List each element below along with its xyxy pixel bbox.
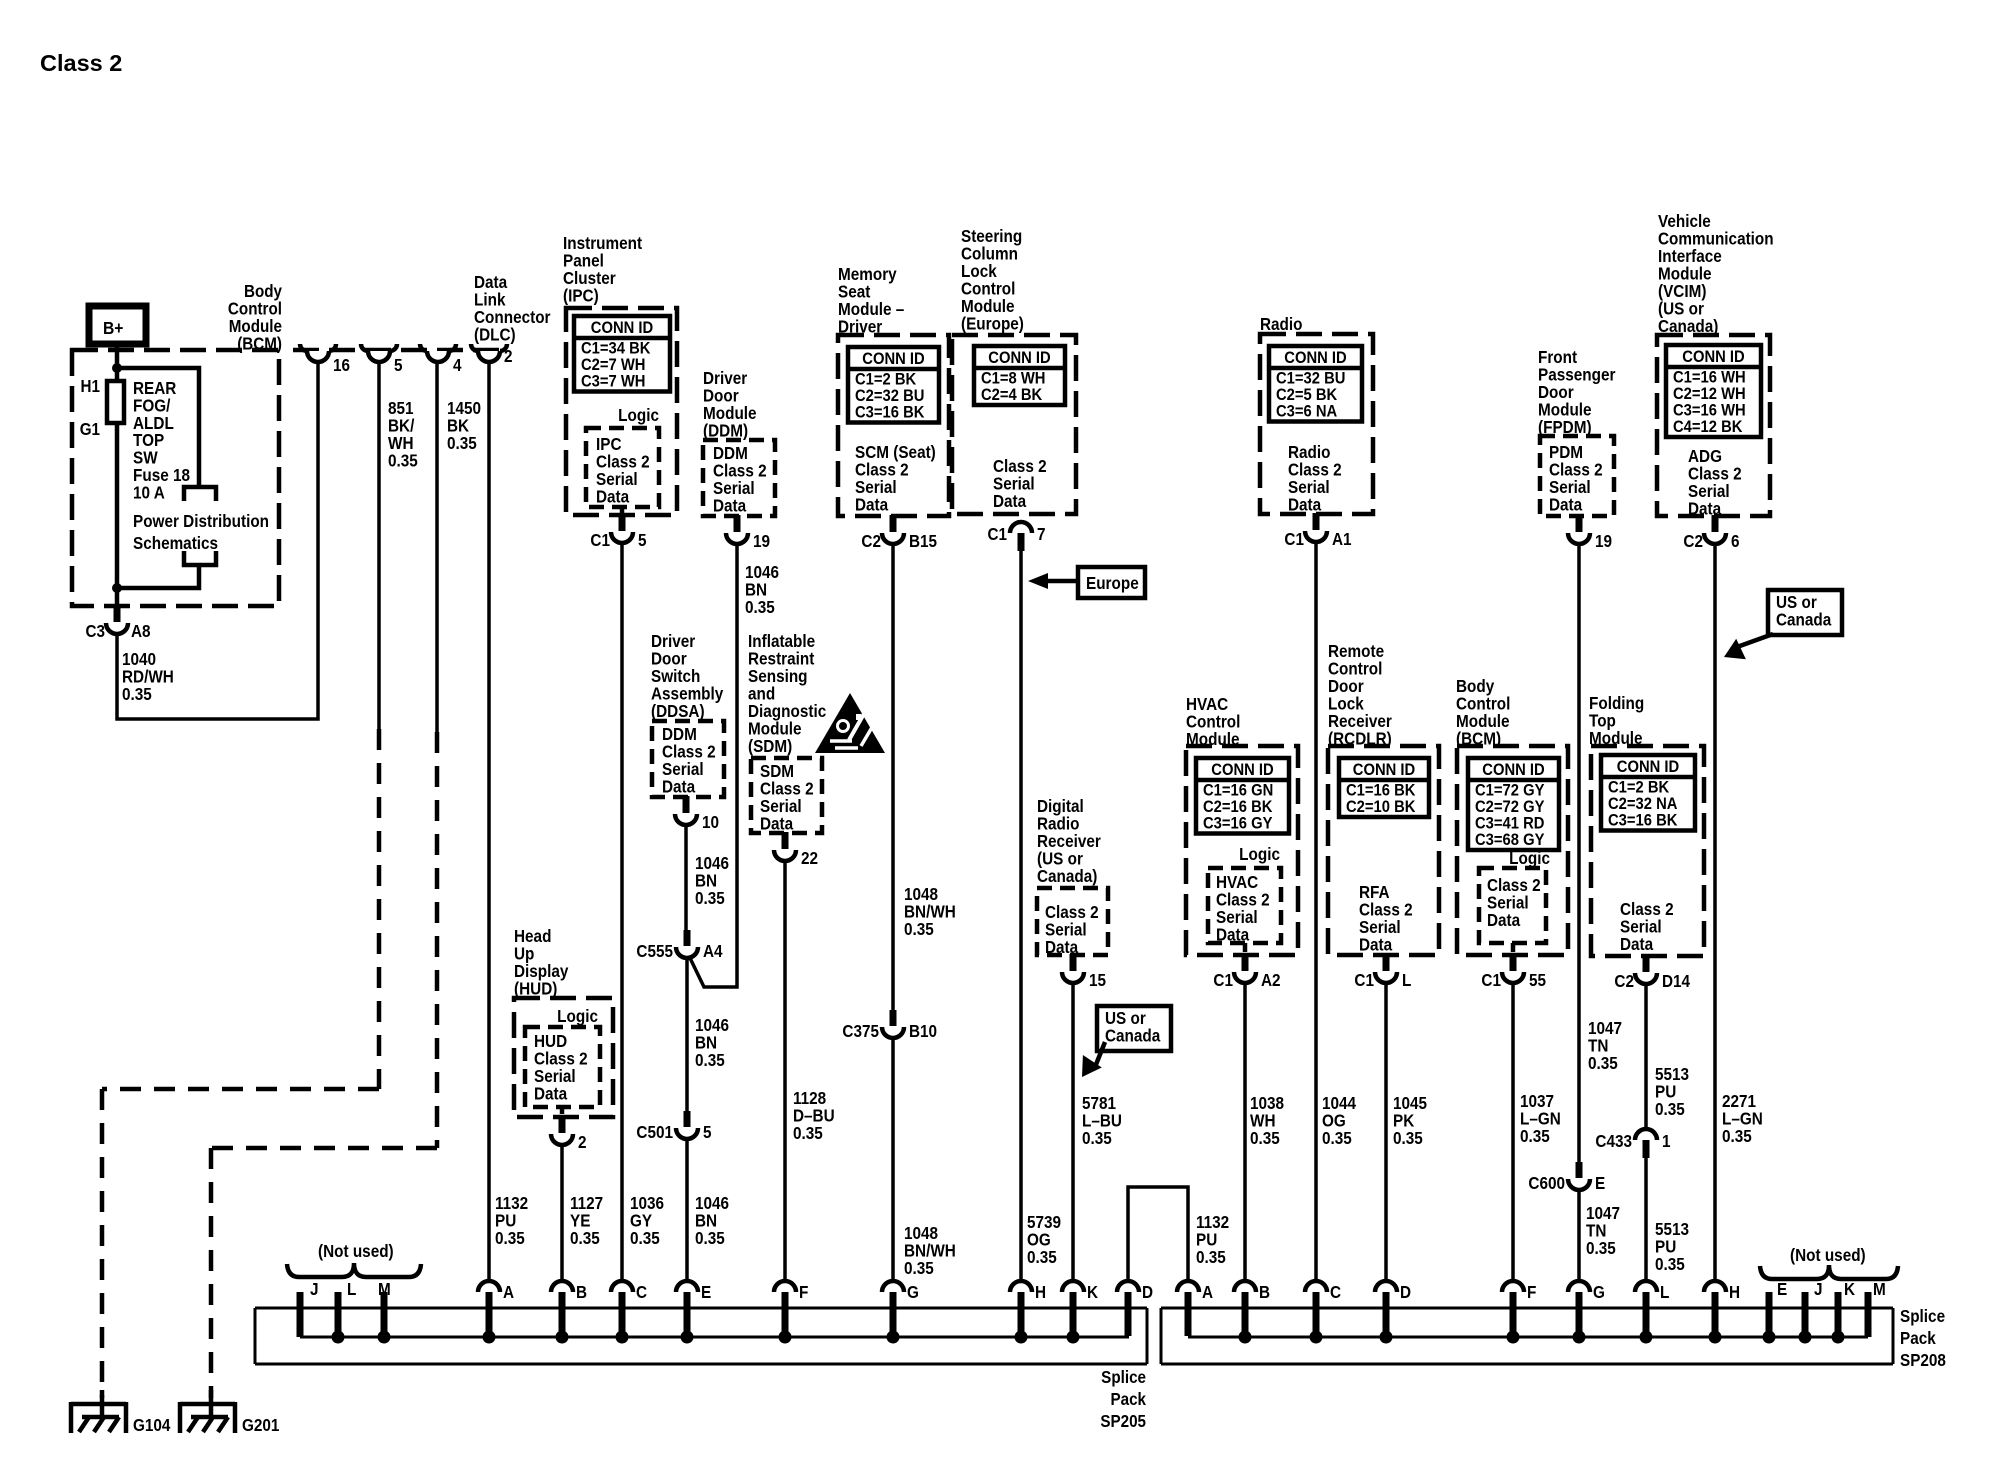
svg-text:A: A: [1202, 1283, 1213, 1302]
svg-text:C: C: [636, 1283, 647, 1302]
SP205 terminal C: [611, 1281, 633, 1292]
svg-text:1047: 1047: [1588, 1019, 1622, 1038]
svg-text:Serial: Serial: [1216, 908, 1258, 927]
svg-text:Module: Module: [703, 404, 757, 423]
svg-text:L–GN: L–GN: [1520, 1110, 1561, 1129]
svg-text:6: 6: [1731, 532, 1740, 551]
svg-text:Switch: Switch: [651, 667, 700, 686]
svg-text:US or: US or: [1105, 1009, 1146, 1028]
SCM CONN ID table: [848, 347, 939, 423]
svg-text:0.35: 0.35: [447, 434, 477, 453]
svg-text:L–GN: L–GN: [1722, 1110, 1763, 1129]
wire from bracket to junction: [117, 565, 199, 588]
IPC CONN ID table: [574, 316, 670, 392]
SDM connector pin 22: [782, 832, 789, 849]
svg-text:Data: Data: [534, 1085, 568, 1104]
svg-text:Radio: Radio: [1260, 315, 1303, 334]
svg-text:RD/WH: RD/WH: [122, 668, 174, 687]
FTM dashed box: [1591, 746, 1704, 956]
svg-text:C4=12 BK: C4=12 BK: [1673, 418, 1743, 436]
svg-text:C3=16 WH: C3=16 WH: [1673, 402, 1746, 420]
svg-text:BN: BN: [745, 581, 767, 600]
splice pack SP208 box: [1161, 1308, 1893, 1364]
svg-text:C1: C1: [1213, 971, 1233, 990]
svg-text:K: K: [1844, 1280, 1855, 1299]
svg-text:J: J: [1814, 1280, 1823, 1299]
battery B+ terminal: [89, 306, 146, 344]
svg-text:Logic: Logic: [1239, 845, 1280, 864]
off-page bracket upper: [184, 487, 216, 501]
svg-text:19: 19: [753, 532, 770, 551]
svg-text:Serial: Serial: [1688, 482, 1730, 501]
svg-text:1046: 1046: [745, 563, 779, 582]
svg-text:Splice: Splice: [1900, 1307, 1945, 1326]
svg-text:Control: Control: [961, 280, 1015, 299]
svg-text:Canada: Canada: [1105, 1027, 1161, 1046]
svg-text:E: E: [701, 1283, 711, 1302]
wire fuse to C3 stub: [115, 423, 120, 607]
FPDM connector pin 19: [1576, 515, 1583, 532]
svg-text:PU: PU: [1196, 1231, 1217, 1250]
svg-text:F: F: [799, 1283, 808, 1302]
US or Canada arrow mid: [1095, 1042, 1105, 1067]
svg-text:PK: PK: [1393, 1112, 1414, 1131]
svg-text:HVAC: HVAC: [1186, 695, 1228, 714]
SP208 terminal D: [1375, 1281, 1397, 1292]
svg-text:(VCIM): (VCIM): [1658, 282, 1706, 301]
svg-text:1037: 1037: [1520, 1092, 1554, 1111]
connector C600 pin E: [1576, 1162, 1583, 1178]
svg-text:1: 1: [1662, 1132, 1671, 1151]
svg-text:4: 4: [453, 356, 462, 375]
svg-text:2: 2: [504, 347, 513, 366]
SCM dashed box: [838, 335, 949, 516]
svg-text:HVAC: HVAC: [1216, 873, 1258, 892]
svg-text:BN: BN: [695, 1034, 717, 1053]
svg-text:Digital: Digital: [1037, 797, 1084, 816]
svg-text:0.35: 0.35: [695, 1051, 725, 1070]
svg-text:SW: SW: [133, 449, 158, 468]
IPC connector C1 pin 5: [620, 507, 625, 514]
SP205 bus: [300, 1336, 1129, 1339]
svg-text:Top: Top: [1589, 712, 1616, 731]
svg-text:C1: C1: [590, 531, 610, 550]
svg-text:Module –: Module –: [838, 300, 904, 319]
svg-text:Europe: Europe: [1086, 574, 1139, 593]
wire 5513 PU from FTM to C433: [1644, 983, 1648, 1129]
svg-text:5513: 5513: [1655, 1220, 1689, 1239]
DDM dashed box: [703, 440, 775, 516]
svg-text:BN: BN: [695, 872, 717, 891]
svg-text:2271: 2271: [1722, 1092, 1756, 1111]
svg-text:C2: C2: [1683, 532, 1703, 551]
svg-text:Serial: Serial: [1620, 918, 1662, 937]
svg-text:0.35: 0.35: [793, 1124, 823, 1143]
wire 1044 OG from Radio to splice SP208-C: [1314, 541, 1318, 1281]
svg-text:PU: PU: [1655, 1083, 1676, 1102]
svg-text:Serial: Serial: [1045, 921, 1087, 940]
svg-text:SP205: SP205: [1100, 1412, 1146, 1431]
Europe arrow: [1044, 579, 1078, 584]
SP208 terminal L: [1635, 1281, 1657, 1292]
svg-text:5739: 5739: [1027, 1213, 1061, 1232]
junction node above fuse: [112, 363, 122, 373]
DDM connector pin 19: [734, 515, 741, 532]
svg-text:WH: WH: [1250, 1112, 1275, 1131]
svg-text:C2=4 BK: C2=4 BK: [981, 386, 1043, 404]
svg-text:Control: Control: [1186, 713, 1240, 732]
wire 1450 BK from DLC 4 to ground G201: [435, 362, 439, 732]
svg-text:Control: Control: [228, 300, 282, 319]
wire 1036 GY from IPC to splice SP205-C: [620, 543, 624, 1281]
svg-text:C2=16 BK: C2=16 BK: [1203, 798, 1273, 816]
svg-text:G1: G1: [80, 420, 100, 439]
SP208 terminal F: [1502, 1281, 1524, 1292]
svg-text:2: 2: [578, 1133, 587, 1152]
svg-text:Data: Data: [662, 778, 696, 797]
svg-text:C2=7 WH: C2=7 WH: [581, 356, 645, 374]
svg-text:0.35: 0.35: [1722, 1127, 1752, 1146]
svg-text:Module: Module: [961, 297, 1015, 316]
svg-text:BK: BK: [447, 417, 469, 436]
svg-text:GY: GY: [630, 1212, 652, 1231]
svg-text:C1=16 BK: C1=16 BK: [1346, 782, 1416, 800]
SDM dashed box: [751, 758, 822, 833]
svg-text:0.35: 0.35: [1082, 1129, 1112, 1148]
svg-text:5: 5: [703, 1123, 712, 1142]
connector C375 pin B10: [890, 1010, 897, 1026]
svg-text:CONN ID: CONN ID: [591, 319, 653, 337]
svg-text:Vehicle: Vehicle: [1658, 212, 1711, 231]
svg-text:Module: Module: [1538, 401, 1592, 420]
svg-text:Memory: Memory: [838, 265, 897, 284]
svg-text:Class 2: Class 2: [662, 743, 716, 762]
splice pack SP205 box: [255, 1308, 1147, 1364]
svg-text:C2=12 WH: C2=12 WH: [1673, 385, 1746, 403]
svg-text:BN: BN: [695, 1212, 717, 1231]
svg-text:851: 851: [388, 399, 414, 418]
wire 1128 D-BU from SDM 22 to splice SP205-F: [783, 861, 787, 1281]
svg-text:Remote: Remote: [1328, 642, 1384, 661]
svg-text:Door: Door: [1538, 383, 1574, 402]
svg-text:H: H: [1729, 1283, 1740, 1302]
svg-text:C2=5 BK: C2=5 BK: [1276, 386, 1338, 404]
svg-text:BN/WH: BN/WH: [904, 903, 956, 922]
svg-text:OG: OG: [1027, 1231, 1051, 1250]
svg-text:0.35: 0.35: [904, 920, 934, 939]
US or Canada flag box right: [1768, 590, 1842, 635]
svg-text:Logic: Logic: [618, 406, 659, 425]
svg-text:Folding: Folding: [1589, 694, 1644, 713]
svg-text:Data: Data: [855, 496, 889, 515]
svg-text:1048: 1048: [904, 885, 938, 904]
DRR connector pin 15: [1070, 954, 1077, 971]
svg-text:1046: 1046: [695, 854, 729, 873]
svg-text:PDM: PDM: [1549, 443, 1583, 462]
svg-text:Class 2: Class 2: [993, 457, 1047, 476]
branch wire to power distribution reference: [117, 368, 199, 487]
svg-text:(US or: (US or: [1658, 300, 1704, 319]
svg-text:CONN ID: CONN ID: [1284, 349, 1346, 367]
svg-text:YE: YE: [570, 1212, 590, 1231]
svg-text:A: A: [503, 1283, 514, 1302]
SP205 terminal D: [1117, 1281, 1139, 1292]
svg-text:C3=6 NA: C3=6 NA: [1276, 403, 1338, 421]
svg-text:C: C: [1330, 1283, 1341, 1302]
svg-text:1036: 1036: [630, 1194, 664, 1213]
svg-text:Serial: Serial: [1288, 478, 1330, 497]
svg-text:C1=16 WH: C1=16 WH: [1673, 369, 1746, 387]
SP208 terminal H: [1704, 1281, 1726, 1292]
SCM connector C2 pin B15: [890, 515, 897, 532]
svg-text:C1=72 GY: C1=72 GY: [1475, 782, 1545, 800]
svg-text:C3=7 WH: C3=7 WH: [581, 373, 645, 391]
svg-text:0.35: 0.35: [1393, 1129, 1423, 1148]
svg-text:ALDL: ALDL: [133, 414, 174, 433]
svg-text:SDM: SDM: [760, 762, 794, 781]
svg-text:Inflatable: Inflatable: [748, 632, 815, 651]
svg-text:D14: D14: [1662, 972, 1691, 991]
svg-text:0.35: 0.35: [570, 1229, 600, 1248]
svg-text:E: E: [1595, 1174, 1605, 1193]
wire 1037 L-GN from BCM to splice SP208-F: [1511, 982, 1515, 1281]
wire DDSA to C555: [684, 825, 688, 930]
svg-text:7: 7: [1037, 525, 1046, 544]
svg-text:Radio: Radio: [1037, 815, 1080, 834]
svg-text:Serial: Serial: [713, 479, 755, 498]
svg-text:Class 2: Class 2: [1487, 876, 1541, 895]
svg-text:Canada): Canada): [1037, 867, 1097, 886]
svg-text:Lock: Lock: [1328, 695, 1364, 714]
svg-text:0.35: 0.35: [122, 685, 152, 704]
svg-text:PU: PU: [495, 1212, 516, 1231]
wire 5739 OG from SCLCM to splice SP205-H: [1019, 551, 1023, 1281]
svg-text:Canada: Canada: [1776, 611, 1832, 630]
FTM CONN ID table: [1601, 755, 1695, 831]
svg-text:Interface: Interface: [1658, 247, 1722, 266]
svg-text:A4: A4: [703, 942, 723, 961]
Europe flag box: [1078, 567, 1145, 598]
svg-text:CONN ID: CONN ID: [988, 349, 1050, 367]
svg-text:Fuse 18: Fuse 18: [133, 466, 190, 485]
svg-text:0.35: 0.35: [1322, 1129, 1352, 1148]
svg-text:1128: 1128: [793, 1089, 826, 1108]
VCIM CONN ID table: [1666, 345, 1761, 437]
SP205 terminal E: [676, 1281, 698, 1292]
svg-text:Serial: Serial: [1359, 918, 1401, 937]
SP205 stub J: [297, 1292, 304, 1337]
svg-text:Class 2: Class 2: [713, 462, 767, 481]
connector C433 pin 1: [1635, 1129, 1657, 1140]
svg-text:C3=16 BK: C3=16 BK: [855, 404, 925, 422]
svg-text:C1=2 BK: C1=2 BK: [855, 371, 917, 389]
ground G201: [180, 1402, 235, 1407]
svg-text:Logic: Logic: [1509, 849, 1550, 868]
svg-text:Schematics: Schematics: [133, 534, 218, 553]
RCDLR dashed box: [1328, 746, 1439, 955]
svg-text:C3=16 BK: C3=16 BK: [1608, 812, 1678, 830]
svg-text:0.35: 0.35: [495, 1229, 525, 1248]
svg-text:C3=41 RD: C3=41 RD: [1475, 815, 1544, 833]
svg-text:(DLC): (DLC): [474, 326, 516, 345]
svg-text:Receiver: Receiver: [1037, 832, 1101, 851]
svg-text:B+: B+: [103, 318, 124, 338]
BCM right logic inner dashed box: [1479, 868, 1546, 943]
wire 1127 YE from HUD to splice SP205-B: [560, 1145, 564, 1281]
svg-text:K: K: [1087, 1283, 1098, 1302]
svg-text:Class 2: Class 2: [1216, 891, 1270, 910]
svg-text:C1: C1: [988, 525, 1007, 544]
svg-text:0.35: 0.35: [1027, 1248, 1057, 1267]
svg-text:Serial: Serial: [596, 470, 638, 489]
SP208 stub E: [1766, 1292, 1773, 1337]
svg-text:Steering: Steering: [961, 227, 1022, 246]
BCM right CONN ID table: [1468, 758, 1559, 850]
svg-text:Class 2: Class 2: [1549, 461, 1603, 480]
wire 1045 PK from RCDLR to splice SP208-D: [1384, 982, 1388, 1281]
svg-text:Data: Data: [760, 815, 794, 834]
VCIM connector C2 pin 6: [1712, 515, 1719, 532]
svg-text:Display: Display: [514, 962, 569, 981]
SP205 terminal K: [1062, 1281, 1084, 1292]
SP205 bus junction dots: [332, 1331, 345, 1344]
svg-text:0.35: 0.35: [388, 452, 418, 471]
svg-text:1132: 1132: [1196, 1213, 1229, 1232]
svg-text:C2=72 GY: C2=72 GY: [1475, 798, 1545, 816]
wire 1046 BN from DDM 19 to C555 junction: [690, 543, 737, 987]
SP208 terminal B: [1234, 1281, 1256, 1292]
svg-text:TOP: TOP: [133, 431, 164, 450]
FTM connector C2 pin D14: [1643, 955, 1650, 972]
svg-text:5781: 5781: [1082, 1094, 1116, 1113]
svg-text:Serial: Serial: [855, 478, 897, 497]
wire 1047 TN from C600 to splice SP208-G: [1577, 1190, 1581, 1281]
svg-text:16: 16: [333, 356, 350, 375]
wire 1040 RD/WH from C3-A8 to DLC pin 16: [117, 359, 318, 719]
HUD module dashed box: [514, 998, 613, 1117]
svg-text:1127: 1127: [570, 1194, 603, 1213]
BCM right connector C1 pin 55: [1511, 943, 1516, 952]
svg-text:Body: Body: [244, 282, 283, 301]
svg-text:Class 2: Class 2: [534, 1050, 588, 1069]
svg-text:C375: C375: [842, 1022, 879, 1041]
svg-text:Serial: Serial: [534, 1067, 576, 1086]
svg-text:5513: 5513: [1655, 1065, 1689, 1084]
svg-text:BK/: BK/: [388, 417, 415, 436]
SP205 terminal H: [1010, 1281, 1032, 1292]
svg-text:CONN ID: CONN ID: [1617, 758, 1679, 776]
svg-text:Diagnostic: Diagnostic: [748, 702, 826, 721]
svg-text:J: J: [310, 1280, 319, 1299]
IPC module dashed box: [566, 308, 677, 515]
svg-text:(US or: (US or: [1037, 850, 1083, 869]
svg-text:Receiver: Receiver: [1328, 712, 1392, 731]
svg-text:5: 5: [638, 531, 647, 550]
Radio connector C1 pin A1: [1313, 513, 1320, 530]
svg-text:Driver: Driver: [651, 632, 696, 651]
svg-text:C1=8 WH: C1=8 WH: [981, 370, 1045, 388]
DLC connector pin 4: [420, 344, 427, 351]
wire 1048 BN/WH from SCM to C375: [891, 543, 895, 1010]
wire 1132 PU from DLC 2 to splice SP205-A: [487, 362, 491, 1281]
svg-text:C1: C1: [1354, 971, 1374, 990]
SP208 bus junction dots: [1239, 1331, 1252, 1344]
svg-text:B10: B10: [909, 1022, 937, 1041]
svg-text:TN: TN: [1586, 1222, 1606, 1241]
svg-text:Class 2: Class 2: [1620, 900, 1674, 919]
HUD connector pin 2: [560, 1107, 565, 1114]
svg-text:1038: 1038: [1250, 1094, 1284, 1113]
svg-text:Lock: Lock: [961, 262, 997, 281]
svg-text:C1=34 BK: C1=34 BK: [581, 340, 651, 358]
svg-text:DDM: DDM: [662, 725, 697, 744]
svg-text:SCM (Seat): SCM (Seat): [855, 443, 936, 462]
svg-text:Splice: Splice: [1101, 1368, 1146, 1387]
svg-text:(Not used): (Not used): [318, 1242, 394, 1261]
svg-text:B: B: [576, 1283, 587, 1302]
svg-text:C1=16 GN: C1=16 GN: [1203, 782, 1273, 800]
BCM dashed box: [72, 350, 279, 606]
svg-text:0.35: 0.35: [1520, 1127, 1550, 1146]
svg-text:G: G: [907, 1283, 919, 1302]
airbag warning triangle: [815, 693, 885, 753]
svg-text:Module: Module: [229, 317, 282, 336]
wire 5513 PU from C433 to splice SP208-L: [1644, 1158, 1648, 1281]
svg-text:1046: 1046: [695, 1194, 729, 1213]
svg-text:M: M: [1873, 1280, 1886, 1299]
svg-text:Control: Control: [1456, 695, 1510, 714]
svg-text:10 A: 10 A: [133, 483, 165, 502]
svg-text:55: 55: [1529, 971, 1546, 990]
SCLCM CONN ID table: [974, 346, 1065, 405]
svg-text:WH: WH: [388, 434, 413, 453]
svg-text:C2: C2: [1614, 972, 1634, 991]
HVAC connector C1 pin A2: [1243, 943, 1248, 952]
svg-text:Data: Data: [1288, 496, 1322, 515]
DDSA connector pin 10: [683, 796, 690, 813]
ground G104: [71, 1402, 126, 1407]
fuse F18 REAR FOG/ALDL TOP SW Fuse 18 10A: [107, 381, 124, 423]
svg-text:Module: Module: [748, 720, 802, 739]
svg-text:Pack: Pack: [1110, 1390, 1146, 1409]
svg-text:Sensing: Sensing: [748, 667, 808, 686]
off-page bracket lower: [184, 551, 216, 565]
connector C501 pin 5: [684, 1111, 691, 1127]
SP208 not used brace: [1760, 1265, 1898, 1279]
svg-text:Link: Link: [474, 291, 506, 310]
svg-text:C1: C1: [1284, 530, 1304, 549]
svg-text:(Europe): (Europe): [961, 315, 1024, 334]
svg-text:D: D: [1400, 1283, 1411, 1302]
svg-text:C3: C3: [86, 622, 105, 641]
svg-text:0.35: 0.35: [745, 598, 775, 617]
svg-text:Door: Door: [703, 387, 739, 406]
connector C555 pin A4: [684, 930, 691, 946]
svg-text:BN/WH: BN/WH: [904, 1242, 956, 1261]
svg-text:10: 10: [702, 813, 719, 832]
svg-text:Data: Data: [474, 273, 508, 292]
wire 851 BK/WH from DLC 5 to ground G104: [377, 362, 381, 729]
svg-text:L: L: [347, 1280, 356, 1299]
DLC connector pin 2: [471, 344, 478, 351]
svg-text:0.35: 0.35: [630, 1229, 660, 1248]
svg-text:Data: Data: [1549, 496, 1583, 515]
svg-text:Data: Data: [713, 497, 747, 516]
svg-text:DDM: DDM: [713, 444, 748, 463]
svg-text:PU: PU: [1655, 1238, 1676, 1257]
svg-text:0.35: 0.35: [904, 1259, 934, 1278]
svg-text:OG: OG: [1322, 1112, 1346, 1131]
